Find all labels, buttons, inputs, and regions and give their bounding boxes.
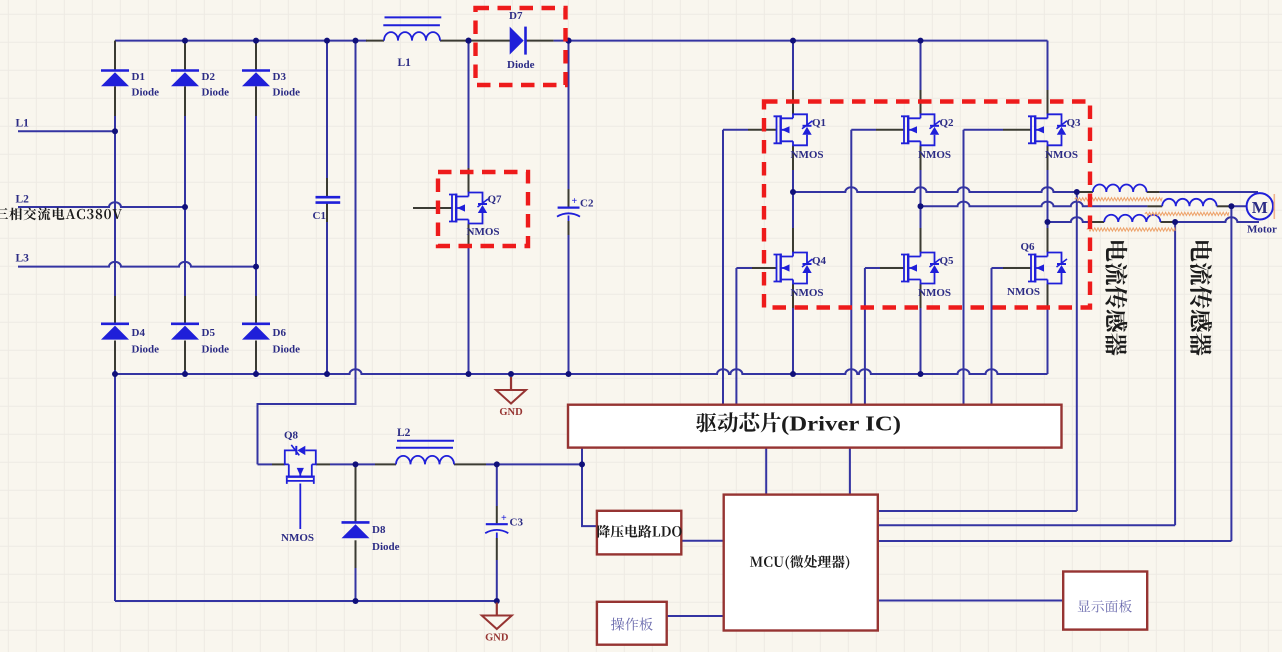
- wire Q5 gate: [865, 267, 880, 269]
- wire top bus L1-to-D7 pin segment: [440, 40, 512, 42]
- node top bus / L1 out: [466, 38, 472, 44]
- wire Q2 gate: [851, 129, 876, 131]
- node top bus / D2: [182, 38, 188, 44]
- svg-text:NMOS: NMOS: [1045, 149, 1078, 161]
- wire bridge column D3/D6: [255, 41, 257, 71]
- wire Q2 gate drop to driver: [850, 130, 852, 405]
- svg-text:NMOS: NMOS: [467, 226, 500, 238]
- MCU block U2: [724, 495, 878, 631]
- svg-text:L1: L1: [398, 57, 412, 69]
- motor M1: [1247, 193, 1273, 219]
- transistor Q2: [901, 114, 940, 145]
- svg-text:C2: C2: [580, 198, 594, 210]
- node phase W: [1045, 219, 1051, 225]
- diode D8: [342, 521, 370, 524]
- label current sensor 1: [1106, 241, 1127, 261]
- wire sensor 3 feedback to MCU: [878, 524, 1175, 526]
- svg-text:NMOS: NMOS: [1007, 286, 1040, 298]
- inductor L1: [385, 16, 442, 18]
- wire current sensor 2 drop: [1230, 206, 1232, 541]
- svg-text:Diode: Diode: [273, 344, 301, 356]
- node L2 input: [182, 204, 188, 210]
- wire inverter column Q3/Q6: [1047, 41, 1049, 90]
- wire Q4 gate: [736, 267, 752, 269]
- wire current sensor 3 drop: [1174, 222, 1176, 525]
- wire top DC bus left segment: [115, 40, 367, 42]
- wire L1 input net: [18, 130, 115, 132]
- svg-text:GND: GND: [485, 633, 509, 644]
- driver IC block U1: [568, 405, 1062, 448]
- node bottom bus / D4: [112, 371, 118, 377]
- wire Q3 gate: [964, 129, 1004, 131]
- transistor Q6: [1028, 253, 1067, 284]
- svg-text:Diode: Diode: [132, 87, 160, 99]
- highlight box inverter Q1-Q6: [764, 102, 1090, 308]
- svg-text:L2: L2: [16, 194, 30, 206]
- svg-text:Q2: Q2: [940, 117, 955, 129]
- svg-text:Diode: Diode: [372, 541, 400, 553]
- wire top bus D7 cathode pin: [526, 40, 554, 42]
- wire phase U row: [793, 187, 1077, 192]
- wire Q6 gate drop to driver: [991, 268, 993, 405]
- wire Q1 gate drop to driver: [722, 130, 724, 405]
- node bottom bus / C2: [566, 371, 572, 377]
- svg-text:D4: D4: [132, 327, 146, 339]
- node top bus / buck feed: [353, 38, 359, 44]
- wire D8 branch: [355, 464, 357, 494]
- svg-text:NMOS: NMOS: [791, 287, 824, 299]
- wire Q6 gate: [992, 267, 1004, 269]
- wire top DC bus right segment: [554, 40, 1048, 42]
- wire driver to MCU A: [765, 448, 767, 495]
- wire secondary ground rail: [114, 374, 116, 601]
- svg-text:Q4: Q4: [812, 255, 827, 267]
- wire phase V row: [921, 202, 1148, 207]
- wire Q3 gate drop to driver: [963, 130, 965, 405]
- wire Q7 column: [468, 41, 470, 168]
- node buck rail / D8: [353, 461, 359, 467]
- capacitor C1: [316, 196, 341, 199]
- display panel block: [1063, 572, 1147, 630]
- wire C1 column: [326, 41, 328, 178]
- svg-text:NMOS: NMOS: [918, 287, 951, 299]
- inductor L2: [397, 440, 454, 442]
- svg-text:D5: D5: [202, 327, 216, 339]
- svg-text:+: +: [501, 513, 507, 524]
- svg-text:NMOS: NMOS: [791, 149, 824, 161]
- control panel block: [597, 602, 667, 645]
- svg-text:L1: L1: [16, 118, 30, 130]
- wire Q8 gate lead: [299, 484, 301, 530]
- svg-text:Diode: Diode: [507, 59, 535, 71]
- svg-text:L3: L3: [16, 253, 30, 265]
- node ground rail / D8: [353, 598, 359, 604]
- diode D5: [171, 322, 199, 325]
- wire phase W row: [1048, 217, 1093, 222]
- diode D1: [101, 69, 129, 72]
- wire Q5 gate drop to driver: [864, 268, 866, 405]
- node bottom bus / D5: [182, 371, 188, 377]
- svg-text:Q7: Q7: [488, 194, 503, 206]
- node top bus / C2: [566, 38, 572, 44]
- svg-text:D7: D7: [509, 10, 523, 22]
- transistor Q5: [901, 253, 940, 284]
- capacitor C2 (polarized): [558, 207, 580, 209]
- node top bus / Q2: [918, 38, 924, 44]
- node bottom bus / C1: [324, 371, 330, 377]
- wire bridge column D1/D4: [114, 41, 116, 71]
- svg-text:Diode: Diode: [273, 87, 301, 99]
- ground GND buck output: [496, 603, 498, 616]
- svg-text:D2: D2: [202, 71, 216, 83]
- svg-text:Q6: Q6: [1021, 241, 1036, 253]
- wire panel to MCU: [667, 615, 724, 617]
- svg-text:NMOS: NMOS: [281, 532, 314, 544]
- wire L3 input net: [18, 262, 256, 267]
- node L3 input: [253, 264, 259, 270]
- svg-text:D8: D8: [372, 524, 386, 536]
- wire L2 input net: [18, 202, 185, 207]
- node top bus / D3: [253, 38, 259, 44]
- diode D3: [242, 69, 270, 72]
- node top bus / D7 cathode: [566, 38, 572, 44]
- svg-text:M: M: [1252, 198, 1268, 217]
- svg-text:Q8: Q8: [284, 430, 299, 442]
- svg-text:+: +: [572, 196, 578, 207]
- wire LDO to MCU: [681, 540, 723, 542]
- wire buck output rail: [258, 463, 273, 465]
- svg-text:C1: C1: [313, 210, 326, 222]
- transistor Q8: [285, 445, 316, 484]
- label current sensor 2: [1191, 241, 1212, 261]
- node L1 input: [112, 128, 118, 134]
- node ground rail / C3: [494, 598, 500, 604]
- diode D2: [171, 69, 199, 72]
- capacitor C3 (polarized): [486, 523, 508, 525]
- svg-text:Diode: Diode: [202, 344, 230, 356]
- current sense zigzag phase W: [1087, 228, 1175, 231]
- highlight box Q7: [438, 172, 528, 246]
- motor winding phase W: [1104, 215, 1160, 222]
- wire inverter column Q2/Q5: [920, 41, 922, 90]
- ground GND main bus: [510, 377, 512, 390]
- svg-text:Q1: Q1: [812, 117, 826, 129]
- wire current sensor 1 drop: [1076, 192, 1078, 511]
- diode D4: [101, 322, 129, 325]
- node buck rail / driver supply: [579, 461, 585, 467]
- node phase W sensor tap: [1172, 219, 1178, 225]
- wire bottom DC bus: [115, 369, 1048, 374]
- node bottom bus / Q4: [790, 371, 796, 377]
- svg-text:D3: D3: [273, 71, 287, 83]
- transistor Q3: [1028, 114, 1067, 145]
- transistor Q4: [774, 253, 813, 284]
- wire Q1 gate: [723, 129, 748, 131]
- wire C3 branch: [496, 464, 498, 506]
- node top bus / Q7: [466, 38, 472, 44]
- transistor Q1: [774, 114, 813, 145]
- wire top bus L1 left pin: [366, 40, 384, 42]
- current sense zigzag phase V: [1145, 212, 1229, 215]
- label three-phase AC 380V input: [0, 208, 122, 221]
- node top bus / C1: [324, 38, 330, 44]
- svg-text:C3: C3: [510, 517, 524, 529]
- svg-text:L2: L2: [397, 427, 411, 439]
- svg-text:Diode: Diode: [132, 344, 160, 356]
- diode D7: [524, 27, 527, 55]
- diode D6: [242, 322, 270, 325]
- wire bridge column D2/D5: [184, 41, 186, 71]
- wire sensor 2 feedback to MCU: [878, 540, 1232, 542]
- wire driver to MCU B: [849, 448, 851, 495]
- node buck rail / C3: [494, 461, 500, 467]
- node bottom bus / Q7: [466, 371, 472, 377]
- wire Q7 gate stub: [413, 207, 452, 209]
- svg-text:(Driver IC): (Driver IC): [781, 412, 901, 436]
- wire buck feed from top bus to Q8: [258, 41, 356, 465]
- motor winding phase V: [1162, 199, 1216, 206]
- node bottom bus / GND: [508, 371, 514, 377]
- node phase U: [790, 189, 796, 195]
- node bottom bus / D6: [253, 371, 259, 377]
- current sense zigzag phase U: [1075, 198, 1163, 201]
- node top bus / Q1: [790, 38, 796, 44]
- highlight box D7: [476, 8, 566, 85]
- svg-text:GND: GND: [499, 407, 523, 418]
- svg-text:D1: D1: [132, 71, 145, 83]
- svg-text:NMOS: NMOS: [918, 149, 951, 161]
- svg-text:Motor: Motor: [1247, 224, 1277, 236]
- wire driver IC supply from rail: [582, 448, 597, 526]
- svg-text:Diode: Diode: [202, 87, 230, 99]
- LDO block U3: [597, 511, 681, 555]
- wire inverter column Q1/Q4: [792, 41, 794, 90]
- svg-text:Q3: Q3: [1067, 117, 1082, 129]
- svg-text:D6: D6: [273, 327, 287, 339]
- node phase U sensor tap: [1074, 189, 1080, 195]
- node phase V sensor tap: [1228, 203, 1234, 209]
- motor winding phase U: [1093, 184, 1147, 192]
- wire C2 column: [568, 41, 570, 189]
- node bottom bus / Q5: [918, 371, 924, 377]
- node phase V: [918, 203, 924, 209]
- wire MCU to display panel: [878, 600, 1063, 602]
- transistor Q7: [449, 193, 488, 224]
- svg-text:Q5: Q5: [940, 255, 955, 267]
- wire Q4 gate drop to driver: [735, 268, 737, 405]
- wire sensor 1 feedback to MCU: [878, 510, 1077, 512]
